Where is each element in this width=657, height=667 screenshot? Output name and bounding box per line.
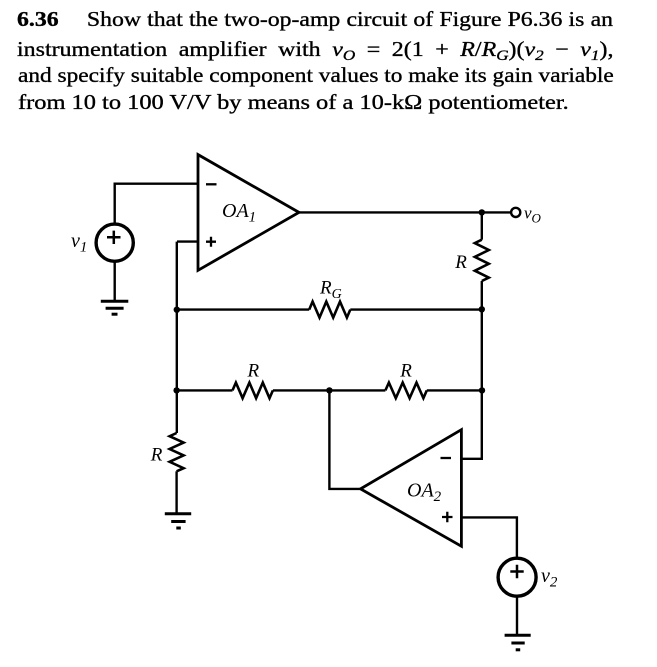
svg-text:R: R	[454, 252, 467, 273]
svg-text:OA2: OA2	[407, 480, 442, 506]
svg-text:R: R	[150, 445, 163, 466]
svg-text:v1: v1	[71, 230, 87, 256]
svg-text:RG: RG	[319, 278, 342, 303]
svg-text:R: R	[246, 361, 259, 382]
svg-text:vO: vO	[524, 204, 542, 226]
svg-text:OA1: OA1	[222, 200, 256, 226]
svg-text:R: R	[399, 361, 412, 382]
svg-text:v2: v2	[541, 565, 558, 591]
